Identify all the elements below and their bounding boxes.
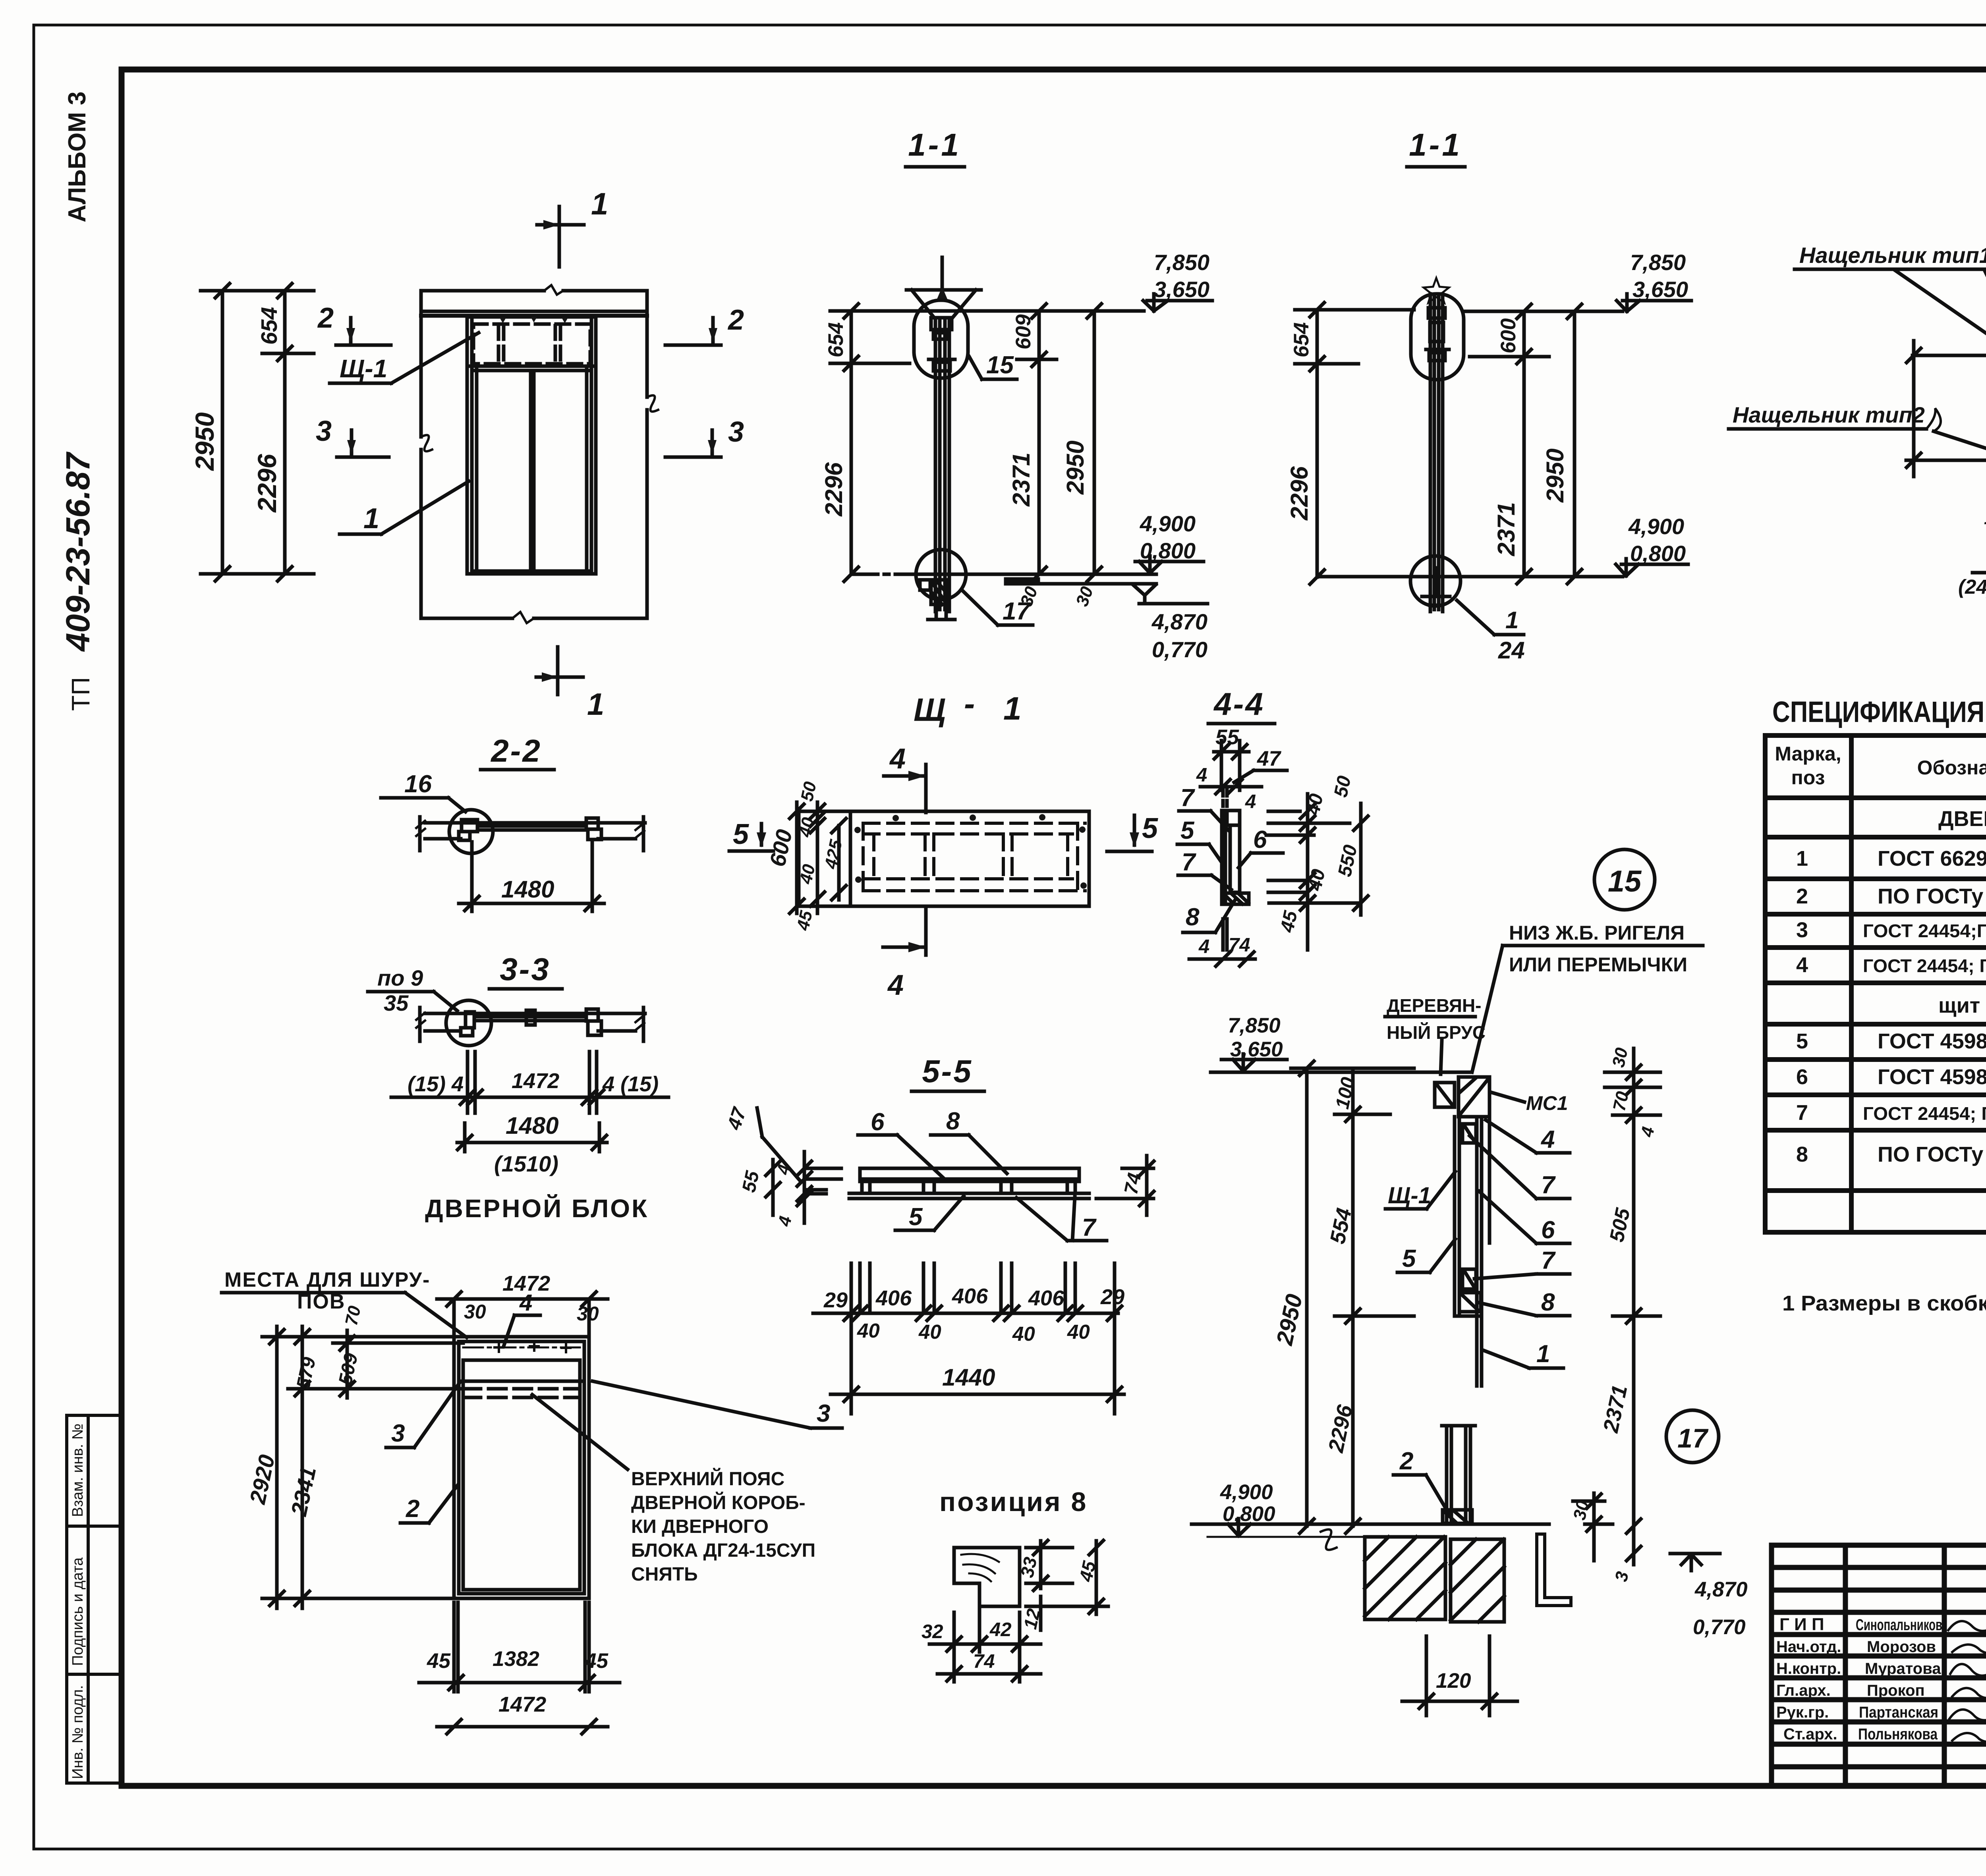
svg-text:40: 40 [1012, 1322, 1035, 1345]
svg-text:2371: 2371 [1493, 502, 1520, 556]
svg-text:1 Размеры в скобках даны для: 1 Размеры в скобках даны для проемов в к… [1782, 1291, 1986, 1315]
dim 1480/(1510) [457, 1112, 607, 1176]
derevyannyi brus label [1387, 995, 1486, 1043]
door leaf mullions [531, 371, 534, 571]
dim 2950 (second) [1317, 304, 1623, 584]
svg-text:5-5: 5-5 [922, 1054, 973, 1089]
svg-text:4,900: 4,900 [1220, 1480, 1273, 1504]
svg-text:29: 29 [823, 1288, 848, 1312]
svg-text:1: 1 [587, 687, 604, 722]
svg-text:30: 30 [577, 1303, 599, 1325]
svg-text:2950: 2950 [1062, 440, 1089, 495]
svg-text:1: 1 [1796, 847, 1808, 870]
svg-text:47: 47 [723, 1104, 751, 1133]
svg-text:НИЗ Ж.Б. РИГЕЛЯ: НИЗ Ж.Б. РИГЕЛЯ [1509, 922, 1685, 944]
svg-text:Польнякова: Польнякова [1858, 1725, 1938, 1743]
svg-text:Щ-1: Щ-1 [340, 354, 387, 383]
svg-text:33: 33 [1016, 1555, 1041, 1579]
title block grid [1772, 1545, 1986, 1786]
svg-text:5: 5 [909, 1203, 923, 1231]
L-shaped wood block [954, 1548, 1020, 1606]
specification table title [1772, 695, 1986, 728]
title 2-2 [490, 733, 542, 768]
label 7 bottom [1178, 849, 1231, 890]
label 2 left [400, 1485, 458, 1523]
svg-text:ИЛИ ПЕРЕМЫЧКИ: ИЛИ ПЕРЕМЫЧКИ [1509, 953, 1687, 976]
svg-text:15: 15 [986, 351, 1014, 379]
svg-text:Муратова: Муратова [1865, 1660, 1941, 1677]
svg-text:550: 550 [1334, 843, 1362, 879]
svg-text:4: 4 [1637, 1125, 1658, 1139]
svg-text:ДЕРЕВЯН-: ДЕРЕВЯН- [1387, 995, 1482, 1016]
node 17 circle (second) [1410, 556, 1461, 606]
svg-text:1: 1 [363, 503, 379, 535]
svg-text:1: 1 [1505, 607, 1518, 633]
svg-text:40: 40 [1304, 867, 1329, 893]
label 5 (5-5) [895, 1196, 964, 1231]
svg-text:600: 600 [1497, 318, 1520, 353]
dim 654/2296 of section [820, 304, 914, 581]
leader labels right: 4,7,6,7,8,1 [1486, 1120, 1570, 1153]
label 47 leader [723, 1104, 800, 1181]
svg-text:5: 5 [733, 818, 749, 850]
svg-text:42: 42 [989, 1619, 1012, 1641]
node 15 stadium [914, 300, 968, 378]
section marker 4 top [884, 743, 926, 813]
dims 32/42/74 bottom [922, 1590, 1041, 1682]
svg-text:2371: 2371 [1599, 1383, 1632, 1435]
section marker 3 left [316, 415, 389, 457]
svg-text:2371: 2371 [1008, 452, 1035, 507]
dim 2950 [851, 304, 1144, 581]
bottom dims 45/1382/45 [419, 1602, 620, 1692]
svg-text:409-23-56.87: 409-23-56.87 [59, 452, 97, 652]
svg-text:406: 406 [875, 1286, 912, 1310]
section marker 1 bottom [536, 647, 604, 722]
svg-text:ГОСТ 4598-74: ГОСТ 4598-74 [1878, 1029, 1986, 1053]
label 17 [963, 591, 1033, 625]
margin text ТП 409-23-56.87 [59, 452, 97, 711]
dim (15)4 1472 4(15) [391, 1052, 668, 1113]
svg-text:Нащельник тип2: Нащельник тип2 [1733, 402, 1925, 427]
svg-text:ДВЕРНОЙ БЛОК 2шт: ДВЕРНОЙ БЛОК 2шт [1938, 807, 1986, 831]
specification table body text [1796, 807, 1986, 1181]
svg-text:16: 16 [1984, 508, 1986, 528]
svg-text:7: 7 [1180, 784, 1195, 812]
left dims 4/55/4 [738, 1152, 841, 1228]
door block caption [425, 1194, 649, 1223]
svg-text:ДВЕРНОЙ КОРОБ-: ДВЕРНОЙ КОРОБ- [631, 1492, 806, 1513]
label 1 with leader [340, 481, 469, 535]
svg-text:609: 609 [1012, 314, 1035, 349]
section marker 4 bottom [883, 906, 926, 1001]
dashed upper belt (to remove) [463, 1389, 580, 1397]
elevation 7850/3650 (section) [1221, 1014, 1287, 1071]
svg-text:Подпись и дата: Подпись и дата [70, 1557, 86, 1666]
svg-text:ГОСТ 24454; ГОСТ 8486-66: ГОСТ 24454; ГОСТ 8486-66 [1863, 1103, 1986, 1124]
svg-text:ПО ГОСТу 6629-74: ПО ГОСТу 6629-74 [1878, 884, 1986, 908]
svg-text:4: 4 [519, 1290, 532, 1316]
svg-text:АЛЬБОМ 3: АЛЬБОМ 3 [64, 91, 91, 222]
svg-text:74: 74 [1121, 1171, 1146, 1196]
svg-text:(24): (24) [1958, 575, 1986, 598]
svg-text:3: 3 [817, 1400, 830, 1427]
svg-text:щит Щ-1 2шт: щит Щ-1 2шт [1938, 994, 1986, 1017]
svg-text:2296: 2296 [1286, 466, 1313, 521]
svg-text:505: 505 [1605, 1206, 1634, 1244]
svg-text:Синопальников: Синопальников [1856, 1616, 1942, 1634]
section marker 2 left [317, 302, 391, 345]
label 8 [1183, 898, 1236, 932]
svg-text:1: 1 [591, 186, 608, 221]
svg-text:1-1: 1-1 [1409, 127, 1462, 162]
svg-text:8: 8 [1541, 1289, 1555, 1316]
elevation 7,850/3,650 (second) [1617, 250, 1691, 311]
svg-text:Взам. инв. №: Взам. инв. № [70, 1424, 86, 1517]
svg-text:ДВЕРНОЙ БЛОК: ДВЕРНОЙ БЛОК [425, 1194, 649, 1223]
svg-text:6: 6 [1796, 1065, 1808, 1089]
svg-text:7: 7 [1541, 1247, 1556, 1274]
svg-text:ГОСТ 6629-74: ГОСТ 6629-74 [1878, 847, 1986, 870]
svg-text:35: 35 [384, 990, 409, 1015]
svg-text:40: 40 [857, 1319, 880, 1342]
svg-text:4: 4 [1198, 936, 1209, 957]
dim 654 / 2296 [252, 284, 314, 581]
svg-text:1480: 1480 [501, 876, 554, 903]
signatures [1948, 1620, 1986, 1742]
svg-text:6: 6 [1541, 1216, 1555, 1244]
svg-text:30: 30 [1072, 584, 1097, 609]
svg-text:Инв. № подл.: Инв. № подл. [70, 1685, 86, 1779]
svg-text:3,650: 3,650 [1632, 277, 1688, 302]
floor lines [854, 574, 1156, 584]
section title 1-1 (second) [1409, 127, 1462, 162]
svg-text:120: 120 [1436, 1669, 1471, 1693]
left margin stamp table [67, 1415, 122, 1783]
svg-text:4: 4 [1540, 1126, 1555, 1153]
svg-text:2950: 2950 [190, 412, 219, 471]
lintel funnel above [906, 257, 981, 318]
node 16 oval [1411, 294, 1464, 380]
svg-text:2950: 2950 [1271, 1292, 1308, 1348]
Z flashing right [1537, 1534, 1571, 1606]
section marker 3 right [665, 416, 744, 457]
panel section strip [1222, 790, 1249, 950]
svg-text:406: 406 [1028, 1286, 1064, 1310]
svg-text:4: 4 [1196, 764, 1207, 786]
svg-text:3: 3 [391, 1420, 405, 1447]
svg-text:Нащельник тип1: Нащельник тип1 [1799, 243, 1986, 268]
svg-text:1382: 1382 [493, 1647, 539, 1671]
svg-text:8: 8 [946, 1108, 960, 1135]
svg-text:30: 30 [1609, 1046, 1632, 1069]
svg-text:ТП: ТП [66, 677, 95, 711]
svg-text:2: 2 [317, 302, 334, 334]
title 5-5 [922, 1054, 973, 1089]
svg-text:4,900: 4,900 [1628, 514, 1684, 539]
svg-text:СНЯТЬ: СНЯТЬ [631, 1564, 698, 1585]
dims 33/45/12 right [1016, 1540, 1108, 1631]
niz zhb rigelya label [1509, 922, 1687, 976]
right dim 74 [1096, 1156, 1154, 1215]
svg-text:74: 74 [1229, 934, 1250, 956]
svg-text:3,650: 3,650 [1230, 1038, 1283, 1061]
30 labels [1016, 584, 1097, 609]
svg-text:47: 47 [1257, 747, 1281, 770]
foundation hatched blocks [1365, 1537, 1504, 1622]
svg-text:7,850: 7,850 [1154, 250, 1209, 275]
dims 4/74 bottom [1189, 934, 1255, 966]
leaf tail below node 17 [928, 600, 955, 620]
svg-text:5: 5 [1180, 817, 1195, 844]
svg-text:1480: 1480 [506, 1112, 558, 1139]
svg-text:8: 8 [1186, 903, 1200, 931]
bottom dims 16 29 1378 [1984, 477, 1986, 564]
strip 5-5 [849, 1168, 1089, 1199]
svg-text:29: 29 [1100, 1285, 1124, 1309]
svg-text:7,850: 7,850 [1228, 1014, 1281, 1037]
section marker 2 right [665, 304, 744, 345]
panel outer rect [799, 811, 1089, 906]
svg-text:ГОСТ 4598-74: ГОСТ 4598-74 [1878, 1065, 1986, 1089]
dim 47 with leader [1234, 747, 1287, 782]
svg-text:5: 5 [1142, 813, 1158, 844]
svg-text:7: 7 [1541, 1172, 1556, 1199]
svg-text:30: 30 [464, 1301, 486, 1323]
svg-text:Рук.гр.: Рук.гр. [1776, 1704, 1829, 1721]
svg-text:0,800: 0,800 [1223, 1502, 1275, 1526]
svg-text:1472: 1472 [512, 1069, 559, 1093]
svg-text:4: 4 [775, 1214, 796, 1228]
svg-text:Гл.арх.: Гл.арх. [1776, 1682, 1831, 1699]
top wood brus piece [1435, 1077, 1489, 1117]
bottom dim chain 29/406 [813, 1263, 1124, 1414]
svg-text:4: 4 [889, 743, 906, 775]
screw marks on top [500, 317, 568, 323]
star mark on top [1424, 278, 1449, 303]
specification table grid [1765, 735, 1986, 1232]
svg-text:Н.контр.: Н.контр. [1776, 1660, 1841, 1677]
title Shch-1 [914, 686, 1022, 728]
svg-text:БЛОКА ДГ24-15СУП: БЛОКА ДГ24-15СУП [631, 1540, 815, 1561]
svg-text:2950: 2950 [1542, 448, 1569, 503]
svg-text:17: 17 [1003, 598, 1031, 625]
svg-text:позиция 8: позиция 8 [939, 1487, 1088, 1517]
svg-text:Г И П: Г И П [1779, 1615, 1824, 1634]
right dims 30/70/4/505/2371 [1599, 1046, 1660, 1541]
svg-text:ГОСТ 24454;ГОСТ 8486-66: ГОСТ 24454;ГОСТ 8486-66 [1863, 921, 1986, 941]
svg-text:50: 50 [797, 780, 820, 803]
svg-text:406: 406 [952, 1284, 988, 1308]
leader labels left: Shch-1, 5 [1385, 1172, 1455, 1209]
leaf in section [935, 318, 949, 612]
svg-text:ГОСТ 24454; ГОСТ 8486-66: ГОСТ 24454; ГОСТ 8486-66 [1863, 955, 1986, 976]
node 17 circle (section) [1666, 1410, 1719, 1463]
svg-text:4: 4 [773, 1163, 794, 1177]
svg-text:1440: 1440 [942, 1364, 995, 1391]
label 3 right [593, 1381, 842, 1428]
specification table header text [1775, 743, 1986, 789]
wall slab top lines [421, 285, 658, 623]
label 6 [1238, 826, 1283, 868]
svg-text:45: 45 [1277, 909, 1302, 934]
svg-text:4: 4 [1796, 953, 1808, 977]
svg-text:2: 2 [727, 304, 744, 336]
svg-text:40: 40 [795, 816, 818, 840]
svg-text:ПО ГОСТу 6629-74: ПО ГОСТу 6629-74 [1878, 1143, 1986, 1166]
door block frame [454, 1337, 589, 1598]
top bar dash-dot with screws [463, 1342, 580, 1352]
detail circle [449, 810, 493, 853]
svg-text:654: 654 [1290, 322, 1313, 357]
svg-text:0,770: 0,770 [1693, 1615, 1746, 1639]
label 3 left [386, 1383, 460, 1448]
margin text АЛЬБОМ 3 [64, 91, 91, 222]
label 16 with leader [381, 770, 466, 812]
svg-text:Прокоп: Прокоп [1867, 1682, 1925, 1699]
svg-text:4 (15): 4 (15) [602, 1072, 659, 1096]
svg-text:КИ ДВЕРНОГО: КИ ДВЕРНОГО [631, 1516, 769, 1537]
svg-text:40: 40 [1302, 792, 1327, 818]
svg-text:654: 654 [257, 307, 282, 345]
svg-text:Нач.отд.: Нач.отд. [1776, 1638, 1841, 1656]
dim 1472 bottom [437, 1693, 608, 1734]
svg-text:100: 100 [1332, 1075, 1359, 1111]
detail circle 3-3 [446, 1000, 491, 1046]
svg-text:7,850: 7,850 [1630, 250, 1686, 275]
svg-text:поз: поз [1791, 766, 1825, 789]
dim 600 left [765, 802, 804, 913]
label Shch-1 with leader [330, 333, 479, 383]
panel Shch-1 dashed outline [473, 324, 590, 364]
svg-text:24: 24 [1498, 637, 1525, 664]
svg-text:17: 17 [1677, 1423, 1709, 1453]
svg-text:Морозов: Морозов [1867, 1638, 1936, 1656]
svg-text:74: 74 [973, 1651, 995, 1672]
MC1 label [1490, 1092, 1568, 1114]
label 8 (5-5) [931, 1108, 1007, 1173]
left dims 100/554/2296 and 2950 [1271, 1061, 1414, 1533]
dim 120 bottom [1402, 1636, 1517, 1716]
svg-text:ВЕРХНИЙ ПОЯС: ВЕРХНИЙ ПОЯС [631, 1468, 784, 1490]
svg-text:Обозначение: Обозначение [1917, 757, 1986, 779]
svg-text:1: 1 [1536, 1340, 1550, 1368]
svg-text:4: 4 [1245, 791, 1256, 813]
label 15 [969, 351, 1017, 379]
svg-text:3: 3 [728, 416, 744, 448]
svg-text:45: 45 [584, 1649, 609, 1673]
svg-text:2: 2 [1399, 1448, 1413, 1475]
svg-text:6: 6 [1253, 826, 1267, 853]
svg-text:4,900: 4,900 [1140, 511, 1196, 536]
dim 609 / 2371 [1008, 304, 1057, 581]
svg-text:по 9: по 9 [377, 965, 423, 990]
section marker 5 right [1107, 813, 1158, 851]
position 8 title [939, 1487, 1088, 1517]
wall lines left [1906, 341, 1986, 477]
svg-text:654: 654 [824, 322, 848, 357]
node 17 circle [916, 550, 966, 604]
lower leaf at floor [1442, 1426, 1475, 1524]
leaf in section (second) [1430, 294, 1443, 612]
svg-text:2920: 2920 [245, 1453, 280, 1507]
svg-text:32: 32 [922, 1621, 943, 1642]
svg-text:Щ: Щ [914, 692, 946, 728]
title block text [1776, 1557, 1986, 1787]
svg-text:3-3: 3-3 [500, 952, 551, 987]
svg-text:2341: 2341 [286, 1465, 321, 1519]
svg-text:4,870: 4,870 [1694, 1578, 1748, 1601]
left dims 2920/2341/579/509/70 [245, 1304, 463, 1608]
svg-text:3: 3 [1796, 918, 1808, 942]
dim left 654/2296 (second) [1286, 303, 1414, 584]
elevation 7,850/3,650 [1143, 250, 1212, 311]
floor line (section) [1192, 1524, 1549, 1550]
svg-text:Партанская: Партанская [1859, 1704, 1938, 1721]
svg-text:(1510): (1510) [494, 1151, 558, 1176]
svg-text:4: 4 [887, 969, 904, 1001]
label po9/35 [368, 965, 457, 1015]
svg-text:579: 579 [293, 1355, 320, 1391]
nashchelnik tip2 label [1729, 402, 1986, 461]
section marker 5 left [729, 818, 773, 851]
svg-text:600: 600 [765, 827, 797, 869]
section title 1-1 [908, 127, 961, 162]
dim 2950 left [190, 284, 314, 581]
svg-text:3: 3 [1611, 1570, 1632, 1583]
svg-text:5: 5 [1402, 1245, 1416, 1272]
dim chain 50/40/425/40/45 [793, 780, 846, 933]
dim 1472 top [437, 1272, 608, 1334]
svg-text:2: 2 [406, 1495, 419, 1523]
node 15 circle [1594, 849, 1655, 910]
title 4-4 [1213, 686, 1265, 722]
svg-text:45: 45 [427, 1649, 451, 1673]
svg-text:15: 15 [1608, 865, 1642, 898]
svg-text:40: 40 [918, 1320, 941, 1343]
label 1/24 fraction [1457, 600, 1525, 664]
svg-text:7: 7 [1082, 1214, 1097, 1241]
svg-text:2296: 2296 [820, 462, 847, 517]
elevation 4,900/0,800 (second) [1616, 514, 1688, 576]
nashchelnik tip1 label [1795, 243, 1986, 345]
svg-text:МЕСТА ДЛЯ ШУРУ-: МЕСТА ДЛЯ ШУРУ- [224, 1268, 430, 1291]
svg-text:40: 40 [796, 863, 819, 886]
dims 30/3 right bottom [1570, 1493, 1641, 1583]
svg-text:Ст.арх.: Ст.арх. [1783, 1725, 1837, 1743]
svg-text:6: 6 [871, 1108, 885, 1136]
svg-text:0,770: 0,770 [1152, 637, 1207, 662]
dim right 600/2371 (second) [1470, 304, 1549, 584]
svg-text:Марка,: Марка, [1775, 743, 1841, 765]
svg-text:5: 5 [1796, 1029, 1808, 1053]
panel dashed battens [863, 823, 1085, 891]
elevation 4,900/0,800 [1135, 511, 1204, 573]
label 5 [1177, 817, 1223, 864]
svg-text:1472: 1472 [498, 1693, 546, 1716]
note under table [1782, 1291, 1986, 1315]
svg-text:8: 8 [1796, 1143, 1808, 1166]
svg-text:1-1: 1-1 [908, 127, 961, 162]
svg-text:509: 509 [335, 1351, 362, 1387]
svg-text:50: 50 [1330, 774, 1355, 799]
svg-text:2296: 2296 [252, 454, 282, 513]
elevation 4,870/0,770 [1133, 585, 1207, 662]
ceiling line [1211, 1071, 1470, 1074]
svg-text:-: - [964, 686, 975, 722]
dim 1440 [831, 1364, 1124, 1401]
label 7 top [1179, 784, 1228, 830]
